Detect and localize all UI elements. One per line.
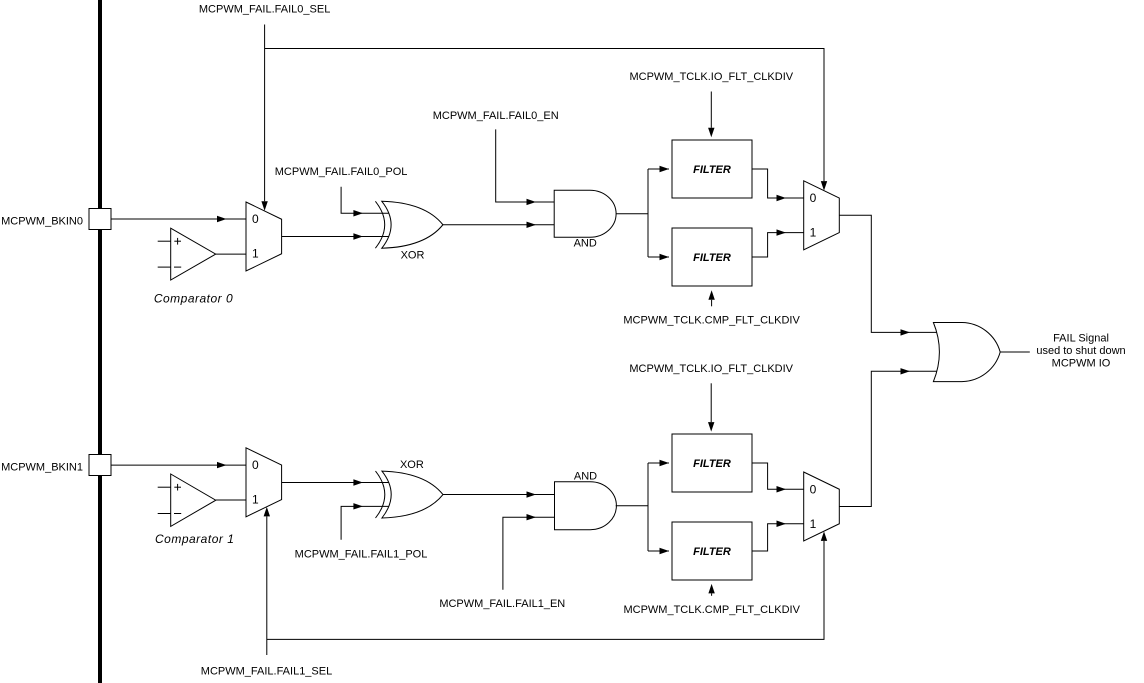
wire XOR X1 out to AND A1 lower input xyxy=(443,224,554,226)
svg-text:0: 0 xyxy=(252,458,259,472)
svg-text:MCPWM_TCLK.CMP_FLT_CLKDIV: MCPWM_TCLK.CMP_FLT_CLKDIV xyxy=(623,314,800,326)
wire FAIL0_SEL branch to mux M2 select xyxy=(265,49,824,182)
wire IO_FLT_CLKDIV into filter F1 xyxy=(710,92,712,128)
svg-text:1: 1 xyxy=(252,247,259,261)
wire comparator0 out to mux M1 input 1 xyxy=(216,253,246,255)
svg-text:FILTER: FILTER xyxy=(693,252,731,264)
wire mux M2 out to OR gate upper input xyxy=(839,215,937,332)
wire filter F2 out to mux M2 input 1 xyxy=(752,233,804,257)
svg-text:used to shut down: used to shut down xyxy=(1036,345,1125,357)
comparator U2 Comparator 1 xyxy=(158,486,171,488)
svg-text:MCPWM_TCLK.IO_FLT_CLKDIV: MCPWM_TCLK.IO_FLT_CLKDIV xyxy=(629,363,793,375)
svg-text:AND: AND xyxy=(574,237,597,249)
xor gate X1 xyxy=(375,201,384,248)
wire FAIL0_EN to AND A1 upper input xyxy=(496,129,555,202)
mux M1 xyxy=(246,202,282,271)
wire AND A1 out split to filters xyxy=(616,213,648,215)
wire pad0 to mux M1 input 0 xyxy=(111,218,246,220)
wire IO_FLT_CLKDIV into filter F3 xyxy=(710,383,712,422)
svg-text:MCPWM_FAIL.FAIL0_POL: MCPWM_FAIL.FAIL0_POL xyxy=(275,166,408,178)
or gate O1 xyxy=(933,323,1000,382)
svg-text:FILTER: FILTER xyxy=(693,164,731,176)
wire XOR X2 out to AND A2 upper input xyxy=(443,494,555,496)
pad MCPWM_BKIN0 xyxy=(89,209,111,230)
wire mux M1 out to XOR X1 lower input xyxy=(282,236,389,238)
wire filter F3 out to mux M4 input 0 xyxy=(752,463,804,489)
svg-text:1: 1 xyxy=(252,493,259,507)
svg-text:FAIL Signal: FAIL Signal xyxy=(1053,333,1109,345)
svg-text:MCPWM_BKIN0: MCPWM_BKIN0 xyxy=(1,216,83,228)
wire FAIL1_SEL branch to mux M4 select xyxy=(267,541,824,640)
wire filter F4 out to mux M4 input 1 xyxy=(752,524,804,551)
svg-text:1: 1 xyxy=(810,517,817,531)
pad MCPWM_BKIN1 xyxy=(89,455,111,476)
wire CMP_FLT_CLKDIV into filter F4 xyxy=(711,593,713,595)
filter F1 xyxy=(672,140,752,198)
wire FAIL1_EN to AND A2 lower input xyxy=(503,517,555,590)
xor gate X2 xyxy=(376,471,385,518)
svg-text:AND: AND xyxy=(574,470,597,482)
svg-text:MCPWM IO: MCPWM IO xyxy=(1052,357,1111,369)
svg-text:FILTER: FILTER xyxy=(693,546,731,558)
comparator U1 Comparator 0 xyxy=(158,240,171,242)
svg-text:MCPWM_TCLK.CMP_FLT_CLKDIV: MCPWM_TCLK.CMP_FLT_CLKDIV xyxy=(623,604,800,616)
and gate A1 xyxy=(554,190,616,237)
svg-text:XOR: XOR xyxy=(401,249,425,261)
wire mux M3 out to XOR X2 upper input xyxy=(282,482,389,484)
filter F4 xyxy=(672,522,752,580)
and gate A2 xyxy=(555,482,617,530)
mux M3 xyxy=(246,448,282,517)
svg-text:MCPWM_TCLK.IO_FLT_CLKDIV: MCPWM_TCLK.IO_FLT_CLKDIV xyxy=(629,71,793,83)
svg-text:MCPWM_FAIL.FAIL1_POL: MCPWM_FAIL.FAIL1_POL xyxy=(295,549,428,561)
wire AND A2 out split to filters xyxy=(616,505,648,507)
svg-text:FILTER: FILTER xyxy=(693,458,731,470)
svg-text:0: 0 xyxy=(810,482,817,496)
wire FAIL1_POL to XOR X2 lower input xyxy=(341,506,389,539)
svg-text:0: 0 xyxy=(810,191,817,205)
wire FAIL0_SEL vertical into mux M1 select xyxy=(264,25,266,202)
svg-text:0: 0 xyxy=(252,212,259,226)
svg-text:Comparator 1: Comparator 1 xyxy=(155,532,234,546)
svg-text:MCPWM_FAIL.FAIL1_SEL: MCPWM_FAIL.FAIL1_SEL xyxy=(201,665,332,677)
wire FAIL1_SEL vertical into mux M3 select xyxy=(266,516,268,655)
mux M2 xyxy=(804,181,840,250)
filter F2 xyxy=(672,228,752,286)
wire input bus vertical line xyxy=(98,0,102,683)
wire comparator1 out to mux M3 input 1 xyxy=(216,499,246,501)
wire CMP_FLT_CLKDIV into filter F2 xyxy=(711,300,713,307)
svg-text:MCPWM_FAIL.FAIL0_EN: MCPWM_FAIL.FAIL0_EN xyxy=(433,110,559,122)
wire FAIL0_POL to XOR X1 upper input xyxy=(341,187,389,214)
filter F3 xyxy=(672,434,752,492)
wire OR out xyxy=(1000,351,1030,353)
wire filter F1 out to mux M2 input 0 xyxy=(752,169,804,198)
svg-text:MCPWM_FAIL.FAIL0_SEL: MCPWM_FAIL.FAIL0_SEL xyxy=(199,3,330,15)
svg-text:MCPWM_FAIL.FAIL1_EN: MCPWM_FAIL.FAIL1_EN xyxy=(439,598,565,610)
svg-text:XOR: XOR xyxy=(400,459,424,471)
mux M4 xyxy=(804,472,840,541)
svg-text:MCPWM_BKIN1: MCPWM_BKIN1 xyxy=(1,462,83,474)
wire pad1 to mux M3 input 0 xyxy=(111,464,246,466)
svg-text:1: 1 xyxy=(810,226,817,240)
svg-text:Comparator 0: Comparator 0 xyxy=(154,291,233,305)
wire mux M4 out to OR gate lower input xyxy=(839,371,937,506)
